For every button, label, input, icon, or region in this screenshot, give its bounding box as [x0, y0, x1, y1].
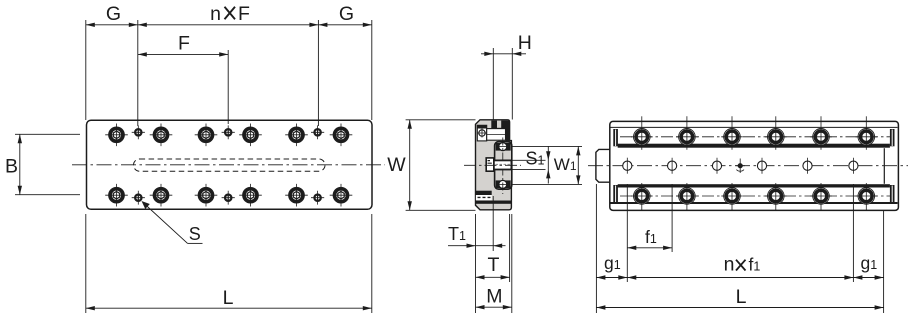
svg-text:G: G: [106, 3, 121, 25]
dimension T: [476, 214, 510, 282]
svg-text:L: L: [736, 286, 747, 308]
svg-text:T: T: [488, 254, 500, 276]
svg-text:W1: W1: [554, 155, 577, 174]
table inner top line: [611, 126, 898, 128]
small pin hole bottom row 1: [132, 191, 145, 205]
dimension G right: [318, 3, 371, 120]
section left wall white label band: [476, 195, 492, 200]
counterbore screw hole bottom row 2: [150, 184, 173, 207]
svg-text:M: M: [486, 286, 502, 308]
small pin hole bottom row 3: [311, 191, 324, 205]
bottom gap black band: [618, 184, 890, 187]
svg-text:g1: g1: [604, 253, 621, 273]
section dark bar right of bore: [505, 128, 509, 141]
counterbore screw hole top row 5: [285, 124, 308, 147]
rail mounting hole 2: [668, 158, 677, 174]
svg-text:S: S: [189, 224, 201, 244]
middle view horizontal centerline: [464, 164, 521, 166]
svg-text:F: F: [238, 3, 250, 25]
counterbore screw hole bottom row 1: [105, 184, 128, 207]
svg-text:G: G: [339, 3, 354, 25]
table bolt bottom row 2: [676, 183, 698, 210]
dimension L of plate: [86, 214, 372, 313]
rail mounting hole 6: [849, 158, 858, 174]
table bolt bottom row 4: [765, 183, 787, 210]
dimension n×F: [138, 3, 319, 126]
counterbore screw hole bottom row 6: [330, 184, 353, 207]
small pin hole top row 2: [222, 125, 235, 139]
dimension W1: [512, 146, 582, 184]
dimension T1: [448, 196, 506, 313]
section middle white band (tapped hole): [494, 160, 512, 169]
dimension M: [476, 214, 512, 313]
svg-text:g1: g1: [861, 253, 878, 273]
end seal bar bottom-left: [613, 185, 618, 202]
svg-text:B: B: [5, 156, 18, 178]
dimension g1 right: [853, 211, 883, 313]
counterbore screw hole top row 1: [105, 124, 128, 147]
table bolt bottom row 3: [721, 183, 743, 210]
rail mounting hole 5: [803, 158, 812, 174]
table bolt top row 2: [676, 116, 698, 150]
rail mounting hole 4: [757, 158, 766, 174]
table bolt bottom row 5: [810, 183, 832, 210]
end seal bar top-right: [890, 129, 895, 146]
dimension B: [5, 134, 80, 194]
bolt row centerline bottom: [620, 195, 891, 197]
section left wall black strip: [476, 191, 492, 195]
rail bolt top: [496, 143, 511, 151]
small pin hole top row 1: [132, 125, 145, 139]
dimension g1 left: [596, 184, 627, 313]
small pin hole bottom row 2: [222, 191, 235, 205]
table bolt bottom row 1: [631, 183, 653, 210]
dimension n×f1: [627, 184, 853, 282]
counterbore screw hole top row 3: [195, 124, 218, 147]
section bolt pocket top-left: [477, 125, 486, 141]
rail vertical centerline: [502, 138, 504, 195]
small pin hole top row 3: [311, 125, 324, 139]
rail right end edge visible through side gap: [883, 148, 885, 184]
counterbore screw hole top row 6: [330, 124, 353, 147]
table inner bottom line: [611, 202, 898, 204]
dimension W: [387, 120, 475, 211]
table bolt top row 4: [765, 116, 787, 150]
left view: top view of slide table plate: [87, 120, 373, 209]
svg-text:S1: S1: [526, 149, 545, 169]
right view rail (protrudes left): [596, 149, 884, 182]
svg-text:f1: f1: [749, 255, 761, 275]
dashed slot (stadium) in plate: [134, 159, 326, 171]
leader and label S: [142, 201, 203, 244]
middle view: cross-section body: [476, 120, 512, 210]
end seal bar top-left: [613, 129, 618, 146]
grease nipple pocket: [486, 158, 494, 171]
dimension f1: [627, 184, 672, 252]
counterbore screw hole top row 4: [239, 124, 262, 147]
dimension G left: [86, 3, 138, 126]
table bolt top row 5: [810, 116, 832, 150]
stroke center mark: [736, 159, 746, 174]
dimension F: [138, 33, 228, 124]
svg-text:n: n: [210, 3, 221, 25]
section bore rectangle: [487, 129, 506, 141]
section bottom black band: [476, 201, 512, 204]
bolt row centerline top: [620, 136, 891, 138]
svg-text:F: F: [178, 33, 190, 55]
counterbore screw hole bottom row 3: [195, 184, 218, 207]
svg-text:f1: f1: [645, 227, 657, 247]
svg-text:H: H: [518, 32, 532, 54]
counterbore screw hole bottom row 4: [239, 184, 262, 207]
table bolt top row 3: [721, 116, 743, 150]
svg-text:W: W: [387, 154, 406, 176]
counterbore screw hole top row 2: [150, 124, 173, 147]
top gap black band: [618, 144, 890, 148]
end seal bar bottom-right: [890, 185, 895, 202]
dimension S1: [512, 146, 551, 184]
table bolt top row 1: [631, 116, 653, 150]
svg-text:T1: T1: [448, 224, 466, 244]
table bolt bottom row 6: [856, 183, 878, 210]
right view table outline: [610, 121, 899, 210]
rail cross-section (bone): [495, 142, 512, 190]
rail mounting hole 3: [712, 158, 721, 174]
svg-text:n: n: [724, 254, 735, 276]
rail mounting hole 1: [623, 158, 632, 174]
section top black band: [491, 121, 509, 131]
dimension L of rail: [596, 286, 883, 310]
centerline of left view: [72, 164, 385, 166]
svg-text:L: L: [223, 287, 234, 309]
right view centerline: [588, 165, 908, 167]
table bolt top row 6: [856, 116, 878, 150]
rail bolt bottom: [496, 180, 511, 188]
counterbore screw hole bottom row 5: [285, 184, 308, 207]
dimension H: [481, 32, 532, 120]
